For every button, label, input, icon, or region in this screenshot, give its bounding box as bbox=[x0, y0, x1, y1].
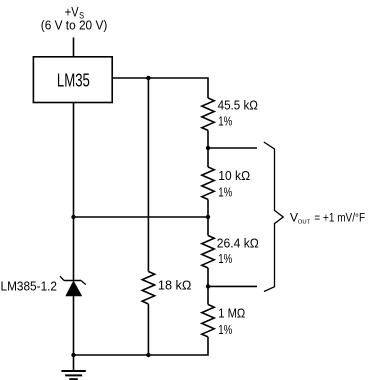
resistor R2 10 kOhm bbox=[202, 167, 250, 199]
wire diode anode to ground rail bbox=[73, 296, 75, 355]
node +VS label bbox=[41, 5, 108, 33]
svg-text:18 kΩ: 18 kΩ bbox=[158, 279, 192, 293]
node junction on LM35 ground branch bbox=[71, 215, 75, 219]
wire bottom rail bbox=[74, 337, 209, 355]
svg-text:1 MΩ: 1 MΩ bbox=[218, 307, 245, 321]
resistor R1 45.5 kOhm bbox=[202, 98, 258, 130]
wire 18k branch lower bbox=[147, 304, 149, 355]
wire R2 to R3 bbox=[207, 199, 209, 235]
resistor R4 1 MOhm bbox=[202, 305, 246, 338]
ground bbox=[61, 355, 85, 379]
node junction rail / 18k bbox=[146, 353, 150, 357]
wire R3 to R4 bbox=[207, 268, 209, 305]
resistor 18 kOhm bbox=[142, 272, 191, 305]
wire LM35 bottom pin down to diode bbox=[73, 103, 75, 281]
node junction R3/R4 tap bbox=[206, 284, 210, 288]
svg-text:OUT: OUT bbox=[298, 220, 311, 226]
svg-text:1%: 1% bbox=[218, 323, 232, 337]
resistor R3 26.4 kOhm bbox=[202, 236, 259, 268]
wire +VS supply lead bbox=[73, 38, 75, 57]
wire tap to brace (upper) bbox=[208, 147, 257, 149]
node junction LM35 output / 18k branch bbox=[146, 76, 150, 80]
wire mid horizontal LM35 GND to divider bbox=[74, 216, 209, 218]
node junction R1/R2 tap bbox=[206, 146, 210, 150]
node junction mid divider bbox=[206, 215, 210, 219]
wire tap to brace (lower) bbox=[208, 285, 257, 287]
brace VOUT range bbox=[264, 142, 283, 292]
node VOUT label bbox=[290, 211, 366, 226]
svg-text:(6 V to 20 V): (6 V to 20 V) bbox=[41, 19, 108, 33]
wire 18k branch upper bbox=[147, 78, 149, 272]
node junction rail / ground bbox=[71, 353, 75, 357]
wire R1 to R2 bbox=[207, 130, 209, 167]
svg-text:26.4 kΩ: 26.4 kΩ bbox=[217, 237, 259, 251]
svg-text:1%: 1% bbox=[218, 252, 232, 266]
svg-text:= +1 mV/°F: = +1 mV/°F bbox=[314, 211, 365, 225]
svg-text:+V: +V bbox=[65, 5, 79, 20]
LM35 U1 temperature sensor bbox=[33, 57, 112, 103]
svg-text:1%: 1% bbox=[218, 185, 232, 199]
zener diode D1 LM385-1.2 bbox=[1, 276, 86, 296]
svg-text:45.5 kΩ: 45.5 kΩ bbox=[218, 99, 258, 113]
svg-text:1%: 1% bbox=[218, 115, 232, 129]
svg-text:10 kΩ: 10 kΩ bbox=[218, 169, 250, 183]
svg-text:LM385-1.2: LM385-1.2 bbox=[1, 280, 58, 294]
wire LM35 output to divider top bbox=[112, 78, 208, 98]
svg-text:LM35: LM35 bbox=[57, 70, 90, 90]
